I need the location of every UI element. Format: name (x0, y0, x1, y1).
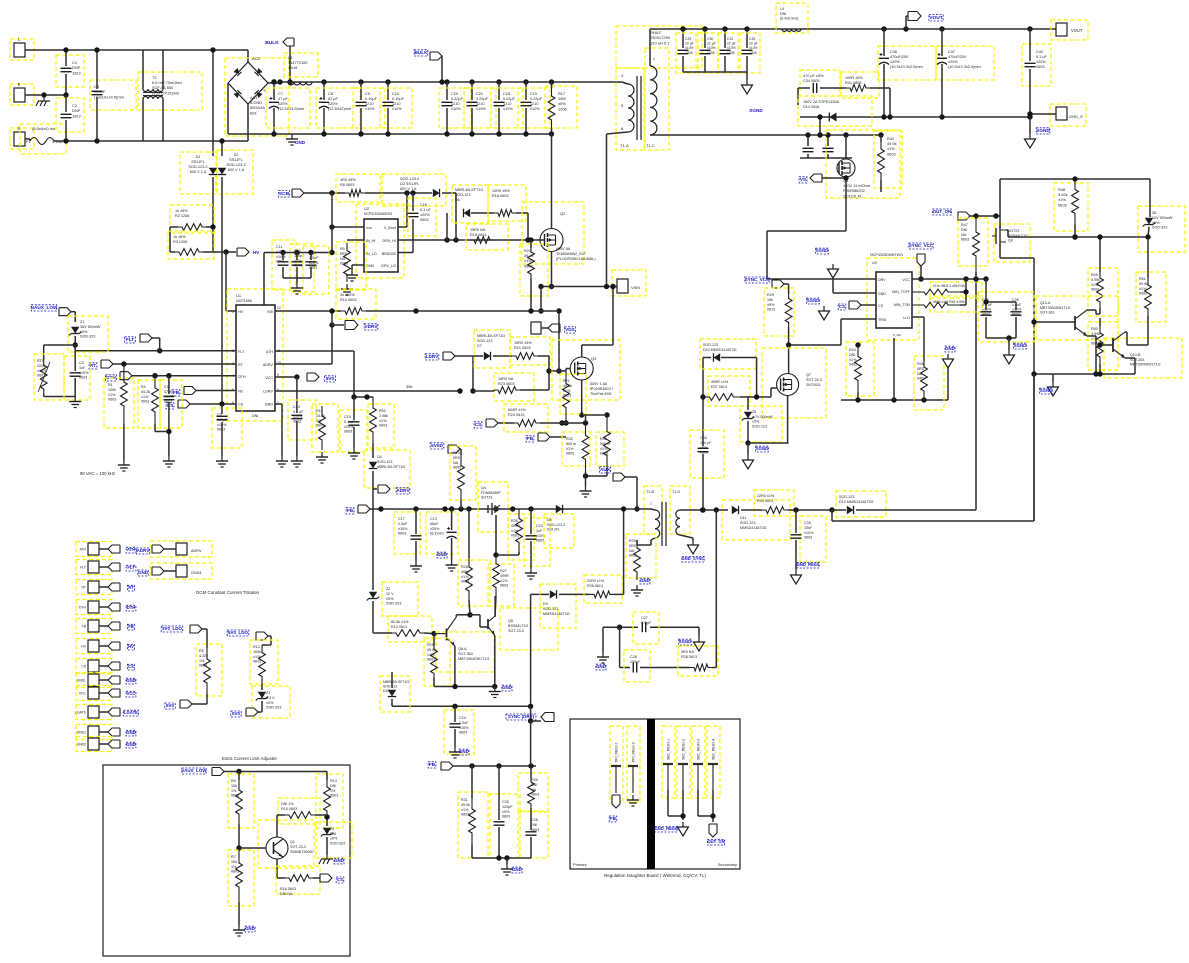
tag VDRV (345, 321, 358, 330)
T1-C winding box (645, 48, 669, 150)
diode D11 (732, 506, 739, 514)
resistor R44 box (930, 282, 982, 296)
junction q2 source (549, 284, 554, 289)
junction q8 d (805, 132, 810, 137)
wire BULK riser (289, 46, 291, 82)
resistor R9 (344, 243, 351, 282)
junction aux 531 (528, 506, 533, 511)
wire c33 col bot (702, 454, 704, 510)
wire q2 drain (551, 134, 553, 229)
wire C12b (296, 267, 298, 278)
junction q8 b (817, 132, 822, 137)
wire x536 lower (530, 721, 532, 766)
wire r22 bot (565, 420, 567, 423)
zener Z2 (367, 592, 379, 601)
transistor Q10-B (1112, 338, 1114, 352)
svg-text:5V0_LDO: 5V0_LDO (228, 630, 249, 635)
junction c27 (617, 625, 622, 630)
wire vboot riser (398, 193, 407, 227)
svg-text:PRI_REG0-1: PRI_REG0-1 (615, 742, 619, 762)
svg-text:GND: GND (334, 858, 344, 863)
wire T1-C bottom (650, 134, 881, 136)
wire r1 bot (123, 424, 125, 460)
choke T2 box (138, 72, 202, 110)
wire c24 bot (454, 729, 456, 747)
connector ADRV (176, 543, 187, 555)
wire d15 bot (391, 699, 393, 706)
resistor R26 (516, 509, 523, 552)
resistor R45 box (930, 298, 982, 312)
ground c5 (163, 456, 175, 467)
resistor R4 (152, 376, 159, 424)
wire z3 bot (258, 701, 262, 712)
junction gnds stub (1027, 111, 1032, 116)
svg-text:LGATE: LGATE (124, 710, 138, 715)
svg-text:DRV_LO: DRV_LO (381, 264, 396, 268)
wire q6a emitter (454, 646, 456, 687)
capacitor C28 box (624, 650, 650, 682)
junction outon b (993, 213, 998, 218)
resistor R20 box (520, 244, 548, 296)
connector FB (88, 620, 99, 632)
svg-text:R2949.9k±1%0603: R2949.9k±1%0603 (427, 643, 436, 662)
resistor R14 (324, 780, 331, 818)
wire q10 rail stem (1052, 374, 1054, 382)
svg-text:SYNC_VCC: SYNC_VCC (909, 243, 934, 248)
junction U2 vcc (329, 224, 334, 229)
choke T2 winding A (143, 89, 163, 92)
junction R17 top (549, 79, 554, 84)
mosfet Q4 symbol (487, 505, 489, 513)
wire c17 col (415, 509, 417, 534)
wire sw bus ext (546, 310, 559, 312)
svg-text:FB: FB (527, 436, 534, 441)
wire c27 left down (602, 627, 604, 652)
junction bot rail a (496, 855, 501, 860)
resistor R11 box (312, 404, 338, 452)
svg-text:C100.10µF1210±10%: C100.10µF1210±10% (392, 92, 405, 111)
svg-text:CS: CS (167, 403, 174, 408)
junction q3 source a (579, 412, 584, 417)
capacitor C37 box (936, 46, 994, 80)
junction top C32 (744, 26, 749, 31)
svg-text:FLT: FLT (80, 566, 86, 570)
choke T2 winding B (143, 97, 163, 99)
svg-text:Q1SOT-23-3SMMBT3906L: Q1SOT-23-3SMMBT3906L (290, 840, 314, 854)
wire c28 col (619, 627, 621, 667)
resistor R8 box (336, 174, 380, 202)
svg-text:Q10-AMBT3904DW1T1GSOT-363: Q10-AMBT3904DW1T1GSOT-363 (1040, 301, 1071, 315)
wire r43 bot (857, 392, 859, 400)
svg-text:R4249.9k±1%0603: R4249.9k±1%0603 (887, 136, 897, 156)
wire C22b (310, 267, 312, 278)
resistor R29b (431, 645, 438, 678)
tag SYNC DRV (541, 713, 554, 722)
resistor R7 box (228, 850, 254, 906)
wire conn VCC (99, 692, 108, 694)
wire sense bot a (585, 472, 587, 486)
op-amp U3 NCP4305 body (876, 272, 912, 328)
wire bulk bottom rail (274, 133, 553, 135)
svg-text:CS: CS (337, 877, 343, 882)
svg-text:VCC: VCC (265, 376, 273, 380)
tag conn LGATE (108, 708, 120, 716)
wire 5v0d (460, 449, 461, 455)
junction q10 rail c (1097, 371, 1102, 376)
wire R2 right (206, 226, 213, 228)
svg-text:NCP51530ADR2G: NCP51530ADR2G (364, 212, 393, 216)
wire R17 bot (551, 128, 553, 134)
junction q6 collector (467, 612, 472, 617)
transistor Q10-A (1074, 316, 1076, 330)
junction y397 a (351, 394, 356, 399)
bridge diode b (254, 68, 262, 76)
junction d3 out (410, 190, 415, 195)
svg-text:BULK: BULK (265, 40, 279, 46)
mosfet Q9 box (994, 224, 1030, 262)
svg-text:PRI_REG0-2: PRI_REG0-2 (632, 742, 636, 762)
wire c24 col (454, 706, 456, 722)
svg-text:5V0D: 5V0D (431, 443, 443, 448)
mosfet Q2 box (522, 202, 584, 264)
Q6-A box (436, 632, 494, 672)
junction C37 top (939, 26, 944, 31)
wire C22 (310, 253, 312, 261)
wire top C29 (682, 29, 684, 48)
wire right rail top (1000, 178, 1150, 180)
resistor R26 box (508, 514, 534, 560)
transistor Q1 (266, 837, 288, 859)
junction C1 mid (63, 92, 68, 97)
svg-text:4: 4 (621, 73, 624, 78)
pri reg box 0 (610, 726, 623, 802)
junction trig r43 (855, 342, 860, 347)
svg-text:CS: CS (128, 664, 134, 669)
wire BULK2 riser (441, 56, 443, 82)
svg-text:D4SOD-123MBRL30LSFT1G: D4SOD-123MBRL30LSFT1G (377, 455, 405, 469)
svg-text:VCC: VCC (79, 692, 87, 696)
connector row VCC box (76, 686, 112, 701)
wire x536 to rail (530, 706, 532, 721)
resistor R3 box (168, 231, 214, 259)
junction sld bus (634, 506, 639, 511)
wire right leg left (999, 179, 1001, 216)
wire U2 vcc column (331, 193, 333, 253)
wire R42 bot (880, 180, 882, 192)
wire sense bot b (606, 472, 608, 476)
capacitor C38 box (978, 292, 1034, 342)
capacitor C4 (92, 91, 103, 94)
wire sec gnd pair b (682, 790, 684, 820)
capacitor C29 (678, 50, 689, 53)
svg-text:GND: GND (437, 552, 447, 557)
junction vaux r6 (236, 769, 241, 774)
junction top C30 (702, 26, 707, 31)
svg-text:HV: HV (128, 644, 134, 649)
wire R8 feed (304, 192, 345, 194)
bridge diode c (233, 90, 241, 98)
junction r4 (152, 373, 157, 378)
svg-text:10R0 ±5%R18 0603: 10R0 ±5%R18 0603 (492, 189, 510, 198)
capacitor C5 (163, 396, 174, 399)
wire r50 bot (1099, 364, 1101, 374)
box C9 (353, 88, 385, 128)
svg-text:FB: FB (128, 624, 134, 629)
junction c39 top (983, 299, 988, 304)
junction cs (219, 401, 224, 406)
capacitor C17 (411, 536, 422, 539)
wire t1b top (651, 509, 655, 510)
svg-text:C140.1 uF±20%0603: C140.1 uF±20%0603 (293, 405, 304, 424)
wire d7 to r21 (493, 355, 512, 357)
svg-text:Secondary: Secondary (718, 862, 737, 867)
wire sec gnd pair (668, 790, 683, 816)
junction rail r46 (921, 397, 926, 402)
tag CS u1 (178, 400, 190, 408)
svg-text:ADRV: ADRV (263, 363, 274, 367)
svg-text:GND: GND (126, 678, 135, 683)
ground c27 left (597, 652, 609, 663)
transformer T1-A primary winding (628, 84, 634, 132)
junction vcc c38 (983, 276, 988, 281)
wire C1 bot (65, 74, 67, 95)
wire z1 bot (74, 336, 76, 351)
capacitor C39 (1011, 312, 1022, 315)
ground triangle GND_S (1025, 134, 1036, 148)
sec reg box 1 (677, 726, 690, 798)
wire rt1 bot (44, 394, 75, 397)
diode D9 box (540, 584, 576, 628)
capacitor C27 box (633, 612, 659, 644)
junction outon a (973, 213, 978, 218)
junction trig q7 (786, 342, 791, 347)
wire r29b top (433, 634, 435, 645)
tag conn RT (108, 583, 120, 591)
wire r14 bot (326, 818, 328, 826)
wire d13 out (856, 282, 976, 510)
wire top C32 (746, 29, 748, 48)
pri reg box 1 (627, 726, 640, 802)
wire snubber2 (820, 87, 846, 89)
tag SEC_VCC (772, 280, 784, 288)
svg-text:VSM: VSM (631, 285, 640, 290)
junction top C31 (722, 26, 727, 31)
svg-text:470 pF ±5%C34 0805: 470 pF ±5%C34 0805 (803, 74, 824, 83)
wire C36b (883, 64, 885, 117)
junction r14 z4 (324, 814, 329, 819)
svg-text:C171.0uF±10%0603: C171.0uF±10%0603 (398, 517, 408, 536)
wire sgnd tri stem (1029, 117, 1031, 134)
wire r31 top (471, 766, 473, 798)
junction q3 drain (610, 284, 615, 289)
svg-text:C2922 µF±10%1206: C2922 µF±10%1206 (685, 37, 694, 55)
junction cs node a (559, 420, 564, 425)
resistor R10 (341, 308, 366, 315)
wire sense bot rail (586, 475, 608, 477)
wire z5 tri stem (747, 443, 749, 455)
wire bridge AC bottom (247, 104, 249, 141)
junction y397 b (364, 394, 369, 399)
svg-text:Vcc: Vcc (366, 226, 372, 230)
wire conn FLT (99, 566, 108, 568)
junction HV riser (223, 249, 228, 254)
capacitor C37 (937, 53, 947, 65)
svg-text:VS: VS (800, 177, 806, 182)
capacitor C17 box (394, 512, 420, 554)
sec reg pin 0 (663, 763, 673, 765)
svg-text:Z54.7V 500mW±5%SOD-123: Z54.7V 500mW±5%SOD-123 (752, 410, 773, 428)
thermistor RT1 arrow (38, 362, 50, 392)
junction ldrv a (457, 388, 462, 393)
svg-text:CS: CS (475, 422, 482, 427)
junction C36 top (881, 26, 886, 31)
thermistor RT1 box (34, 354, 64, 400)
wire conn FB (99, 625, 108, 627)
wire c28 wire (620, 667, 630, 669)
ground tri sec reg (678, 822, 689, 836)
svg-text:ATH: ATH (127, 547, 135, 552)
svg-text:(8.5x4x4) mm: (8.5x4x4) mm (32, 126, 57, 131)
svg-text:GND: GND (265, 403, 274, 407)
svg-text:BULK: BULK (414, 50, 428, 55)
svg-text:15R0 ±5%R21 0603: 15R0 ±5%R21 0603 (514, 341, 532, 350)
resistor R47 box (958, 218, 988, 266)
wire caps gnd rail (283, 277, 311, 279)
resistor R48 box (1054, 183, 1088, 231)
svg-text:C36470uF/25V±20%(10.3x10.3x2.0: C36470uF/25V±20%(10.3x10.3x2.0)mm (890, 50, 923, 69)
resistor R45 (912, 302, 960, 308)
junction C12 (294, 250, 299, 255)
svg-text:Z612V 500mW±5%SOD-323: Z612V 500mW±5%SOD-323 (1152, 211, 1173, 230)
svg-text:D11SOD-123MMSD4148T3G: D11SOD-123MMSD4148T3G (740, 516, 767, 530)
mosfet Q3 box (552, 340, 620, 400)
capacitor C18 (494, 102, 505, 105)
diode D13 (847, 506, 854, 514)
resistor R47 (973, 216, 980, 272)
junction E (41, 92, 46, 97)
svg-text:3V0_LDO: 3V0_LDO (162, 626, 183, 631)
svg-text:R30DNINA0603: R30DNINA0603 (531, 778, 539, 797)
svg-text:SGND: SGND (749, 108, 763, 113)
wire z5 gate link (747, 397, 749, 400)
wire c27 top (603, 626, 638, 628)
junction r48 gate (1072, 234, 1077, 239)
testpoint SW box (531, 322, 541, 334)
svg-text:GND: GND (138, 570, 149, 575)
svg-text:C90.10µF1210±10%: C90.10µF1210±10% (365, 92, 378, 111)
tag 5v0 z3 (246, 708, 258, 716)
svg-text:Q8120V 11 mOhmFDMS86202SO1C8_F: Q8120V 11 mOhmFDMS86202SO1C8_FL (843, 178, 870, 198)
svg-text:C33150 pF±5%0805: C33150 pF±5%0805 (700, 436, 712, 455)
junction R42 top (878, 132, 883, 137)
svg-text:C3222 µF±10%1206: C3222 µF±10%1206 (749, 37, 758, 55)
resistor R36 (590, 591, 614, 598)
junction top C18 (496, 79, 501, 84)
junction z6 (1145, 234, 1150, 239)
svg-text:Z4DNI±5%SOD-323: Z4DNI±5%SOD-323 (330, 827, 345, 845)
junction t1d b (714, 507, 719, 512)
junction sw b (528, 308, 533, 313)
capacitor C12 box (290, 244, 314, 292)
capacitor C13 (447, 527, 457, 539)
junction R8 left (329, 190, 334, 195)
svg-text:600V 9ATK650A65W_S1F(PLOOR265C: 600V 9ATK650A65W_S1F(PLOOR265CHAUMAL) (556, 247, 596, 261)
tag FLT (140, 334, 152, 342)
svg-text:GND: GND (126, 730, 135, 735)
tag RT (101, 360, 113, 368)
wire tag stub 536 (531, 720, 541, 722)
junction top C7 (271, 79, 276, 84)
svg-text:SGND: SGND (1040, 388, 1052, 393)
ground c24 (449, 747, 461, 758)
wire x1034 lower (1033, 374, 1035, 521)
svg-text:IN_LO: IN_LO (366, 252, 377, 256)
wire r31 rail bot (472, 857, 531, 859)
junction q10b base (1097, 342, 1102, 347)
connector LGATE (88, 706, 99, 718)
capacitor C25 (494, 822, 505, 825)
wire q3 source (581, 380, 583, 415)
junction rail r43 (855, 397, 860, 402)
diode D5 box (544, 514, 574, 548)
resistor R32 box (562, 432, 590, 466)
tag BULK2 (430, 52, 442, 60)
wire c39 link (986, 302, 1016, 310)
capacitor C14 (291, 415, 302, 418)
wire sec out pair b (712, 790, 714, 822)
resistor R28 (466, 558, 473, 600)
junction q56 a (452, 684, 457, 689)
wire conn LGATE (99, 711, 108, 713)
connector row RT box (76, 580, 112, 595)
wire d7 left (473, 355, 483, 357)
wire right leg right (1149, 179, 1151, 213)
wire conn GNDL (99, 679, 108, 681)
capacitor C26 box (518, 812, 548, 858)
resistor R42 box (874, 131, 902, 188)
connector row CS box (76, 659, 112, 674)
U3 box (867, 258, 919, 340)
ground tri drv (819, 306, 830, 320)
mosfet Q4 box (478, 482, 508, 532)
wire r29b bot (433, 678, 435, 687)
connector row LGATE box (76, 705, 112, 720)
tag conn GND2 (108, 728, 120, 736)
transformer T1 box (616, 26, 702, 68)
junction vcc r44 (963, 276, 968, 281)
resistor R24 box (504, 404, 548, 432)
svg-text:T1-A: T1-A (620, 143, 629, 148)
junction R2 (210, 224, 215, 229)
resistor R13 box (250, 640, 278, 684)
resistor R36 box (584, 575, 622, 603)
connector GNDL (88, 674, 99, 686)
tag ADRV conn (152, 545, 164, 553)
svg-text:R483.92k±1%0603: R483.92k±1%0603 (1058, 187, 1068, 207)
junction C36 bot (881, 114, 886, 119)
wire bot C10 (387, 108, 389, 134)
svg-text:MBRL30LSFT1GSOD-123D7: MBRL30LSFT1GSOD-123D7 (477, 334, 505, 348)
sec reg box 2 (692, 726, 705, 798)
junction aux 512 (510, 506, 515, 511)
wire t1d bot (680, 535, 693, 540)
svg-text:DRV: DRV (878, 278, 886, 282)
wire z5 q7 rail (748, 442, 789, 444)
resistor R3 (175, 249, 203, 256)
junction q56 b (492, 684, 497, 689)
zener Z5 box (740, 406, 782, 442)
junction c3839 (1006, 335, 1011, 340)
